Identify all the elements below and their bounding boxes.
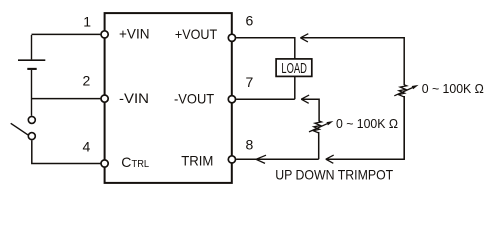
- wire trim return: [326, 96, 404, 159]
- module box U1: [105, 13, 232, 183]
- wire pin7 to load corner: [236, 98, 295, 100]
- load box: [276, 59, 312, 77]
- wire load to pin7 line: [294, 76, 296, 99]
- pin 4 circle: [101, 160, 108, 167]
- svg-text:C: C: [121, 154, 131, 170]
- wire switch to pin4: [32, 140, 101, 163]
- trimpot VR2 (upper): [394, 85, 412, 97]
- arrow on trim return line: [326, 155, 334, 163]
- svg-text:UP DOWN TRIMPOT: UP DOWN TRIMPOT: [275, 166, 393, 182]
- wire trimpot2 to pin8 line: [403, 96, 405, 159]
- wire arrow to right corner: [300, 38, 404, 85]
- svg-text:6: 6: [246, 13, 254, 29]
- svg-text:+VOUT: +VOUT: [175, 26, 218, 42]
- pin 8 circle: [228, 156, 235, 163]
- svg-text:TRL: TRL: [132, 158, 150, 170]
- svg-text:8: 8: [246, 137, 254, 153]
- wire battery- to pin2: [32, 98, 101, 100]
- svg-text:4: 4: [83, 138, 91, 154]
- wire battery+ to pin1: [32, 33, 101, 35]
- wire pin6 to load corner: [236, 38, 295, 59]
- pin 1 circle: [101, 31, 108, 38]
- svg-text:7: 7: [246, 74, 254, 90]
- trimpot VR1 (lower): [309, 121, 327, 133]
- pin 7 circle: [228, 96, 235, 103]
- svg-text:+VIN: +VIN: [119, 26, 150, 42]
- svg-text:0 ~ 100K Ω: 0 ~ 100K Ω: [422, 81, 484, 96]
- pin 2 circle: [101, 95, 108, 102]
- switch S1: [11, 116, 36, 139]
- svg-text:LOAD: LOAD: [281, 60, 307, 77]
- wire pin8 to trimpot1 bottom: [236, 158, 319, 160]
- pin 6 circle: [228, 34, 235, 41]
- arrow on +V line: [300, 34, 308, 42]
- svg-text:TRIM: TRIM: [181, 152, 213, 168]
- wire arrow to trimpot1 corner: [301, 99, 319, 121]
- svg-text:-VIN: -VIN: [119, 90, 149, 106]
- svg-text:1: 1: [83, 13, 91, 29]
- svg-text:-VOUT: -VOUT: [174, 91, 215, 107]
- wire trimpot1 to pin8 line: [318, 132, 320, 159]
- arrow near pin8: [256, 155, 266, 163]
- arrow on -V line: [301, 95, 309, 103]
- battery B1: [18, 35, 45, 116]
- svg-text:2: 2: [83, 73, 91, 89]
- svg-text:0 ~ 100K Ω: 0 ~ 100K Ω: [336, 116, 398, 131]
